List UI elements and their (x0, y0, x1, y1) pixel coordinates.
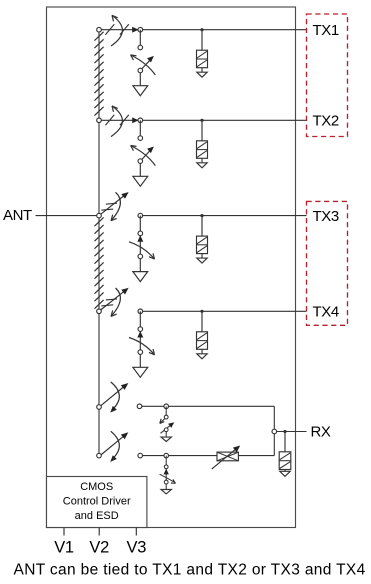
node bus terminal RX switch 2 (97, 453, 102, 458)
series switch SW_TX1 (closed) (99, 15, 140, 46)
shunt switch to ground TX3 (closed) (129, 235, 155, 259)
pin stub V2 (98, 528, 100, 536)
node shunt switch top terminal TX1 (138, 45, 143, 50)
wire TX3 row line to port (140, 215, 306, 217)
ground symbol mini (lower RX) (161, 490, 171, 494)
shunt switch mini (closed) lower RX branch (160, 469, 176, 484)
svg-text:RX: RX (311, 424, 331, 441)
outer device boundary box (47, 7, 296, 528)
node RX lower branch junction (164, 453, 169, 458)
ground symbol below shunt switch TX1 (133, 86, 148, 96)
node shunt switch bottom terminal TX4 (138, 350, 143, 355)
wire stem to shunt switch TX3 (139, 216, 141, 232)
node mini shunt bottom terminal (lower RX) (164, 480, 168, 484)
wire TX1 row line to port (140, 29, 306, 31)
wire shunt switch to ground TX1 (139, 73, 141, 86)
ground symbol below resistor TX2 (197, 163, 207, 168)
node TX1 series switch output (138, 27, 143, 32)
wire RX upper branch down to RX node (273, 406, 275, 431)
node resistor junction on TX1 line (200, 28, 203, 31)
wire bus TX1-TX2 (hatched transmission line) (98, 30, 100, 121)
svg-text:TX4: TX4 (313, 304, 339, 321)
wire bus TX2-ANT node (98, 120, 100, 215)
wire TX1 line to termination resistor (201, 30, 203, 51)
switch RX path 2 (open, on bus) (101, 431, 129, 462)
node RX resistor junction (283, 430, 286, 433)
shunt switch to ground TX4 (closed) (129, 331, 155, 355)
node mini shunt top terminal (upper RX) (164, 415, 168, 419)
wire TX3 line to termination resistor (201, 216, 203, 237)
wire stem to shunt switch TX2 (139, 120, 141, 136)
node mini shunt bottom terminal (upper RX) (164, 428, 168, 432)
series switch SW_TX2 (closed) (99, 106, 140, 137)
wire resistor to ground TX4 (201, 349, 203, 354)
svg-text:V1: V1 (54, 539, 74, 557)
wire TX2 row line to port (140, 119, 306, 121)
svg-text:V3: V3 (127, 539, 147, 557)
wire resistor to ground TX1 (201, 68, 203, 73)
node RX output junction (272, 429, 277, 434)
wire bus TX4 to RX switches (98, 311, 100, 455)
shunt switch to ground TX2 (open) (131, 146, 156, 166)
svg-text:ANT: ANT (3, 207, 32, 224)
resistor termination TX1 (197, 50, 208, 67)
wire TX4 row line to port (140, 310, 306, 312)
node resistor junction on TX3 line (200, 214, 203, 217)
wire attenuator to RX node (238, 455, 274, 457)
wire resistor to ground TX2 (201, 158, 203, 163)
node bus junction at TX3 branch (97, 213, 102, 218)
wire RX line to resistor (284, 432, 286, 452)
red dashed group box TX3/TX4 (307, 201, 348, 325)
svg-text:CMOS: CMOS (80, 481, 113, 493)
ground symbol below resistor TX4 (197, 354, 207, 359)
wire RX lower branch up to RX node (273, 432, 275, 456)
ground symbol mini (upper RX) (161, 437, 171, 441)
ground symbol below RX resistor (280, 471, 290, 476)
wire shunt switch to ground TX4 (139, 354, 141, 367)
wire stem to shunt switch TX1 (139, 30, 141, 46)
node bus terminal RX switch 1 (97, 405, 102, 410)
node shunt switch bottom terminal TX3 (138, 254, 143, 259)
node shunt switch top terminal TX4 (138, 327, 143, 332)
variable attenuator on RX lower branch (212, 446, 241, 470)
pin stub V3 (135, 528, 137, 536)
node shunt switch bottom terminal TX2 (138, 159, 143, 164)
resistor termination RX (279, 452, 291, 470)
CMOS control driver block (47, 477, 147, 528)
red dashed group box TX1/TX2 (307, 14, 348, 137)
svg-text:V2: V2 (89, 539, 109, 557)
shunt switch to ground TX1 (open) (131, 55, 156, 75)
node TX3 series switch output (138, 213, 143, 218)
wire stem to shunt switch TX4 (139, 311, 141, 327)
node TX2 series switch output (138, 118, 143, 123)
wire mini shunt to ground (upper RX) (165, 432, 167, 437)
ground symbol below shunt switch TX4 (133, 367, 148, 377)
node bus junction at TX4 branch (97, 309, 102, 314)
wire mini shunt to ground (lower RX) (165, 484, 167, 490)
wire RX upper branch (140, 405, 275, 407)
node RX upper branch left terminal (137, 404, 142, 409)
wire ANT to bus (36, 215, 100, 217)
node resistor junction on TX2 line (200, 119, 203, 122)
pin stub V1 (63, 528, 65, 536)
wire resistor to ground TX3 (201, 254, 203, 259)
wire RX resistor to ground (284, 470, 286, 472)
ground symbol below resistor TX3 (197, 258, 207, 263)
node mini shunt top terminal (lower RX) (164, 465, 168, 469)
svg-text:and ESD: and ESD (75, 510, 119, 522)
node RX upper branch junction (164, 404, 169, 409)
wire junction to mini shunt switch (upper RX) (165, 406, 167, 415)
node resistor junction on TX4 line (200, 310, 203, 313)
wire junction to mini shunt switch (lower RX) (165, 456, 167, 465)
resistor termination TX2 (197, 141, 208, 159)
node shunt switch top terminal TX3 (138, 231, 143, 236)
series switch SW_TX4 (open) (101, 288, 129, 317)
wire TX2 line to termination resistor (201, 120, 203, 141)
svg-text:Control Driver: Control Driver (63, 496, 131, 508)
ground symbol below shunt switch TX2 (133, 176, 148, 186)
wire shunt switch to ground TX3 (139, 259, 141, 272)
wire shunt switch to ground TX2 (139, 163, 141, 176)
ground symbol below resistor TX1 (197, 72, 207, 77)
node bus junction at TX2 branch (97, 118, 102, 123)
wire RX node to port (277, 431, 307, 433)
switch RX path 1 (open, on bus) (101, 382, 129, 413)
shunt switch mini (open) upper RX branch (160, 417, 174, 433)
wire RX lower branch to attenuator (140, 455, 217, 457)
node shunt switch bottom terminal TX1 (138, 68, 143, 73)
node bus junction at TX1 branch (97, 27, 102, 32)
resistor termination TX3 (197, 236, 208, 254)
hatch marks on bus TX1-TX2 (95, 32, 104, 116)
svg-text:TX2: TX2 (313, 113, 339, 130)
svg-text:TX3: TX3 (313, 208, 339, 225)
wire TX4 line to termination resistor (201, 311, 203, 332)
hatch marks on bus ANT-TX4 (95, 217, 104, 308)
svg-text:ANT can be tied to TX1 and TX2: ANT can be tied to TX1 and TX2 or TX3 an… (14, 562, 366, 579)
wire bus ANT-TX4 (hatched transmission line) (98, 216, 100, 312)
svg-text:TX1: TX1 (313, 22, 339, 39)
node shunt switch top terminal TX2 (138, 136, 143, 141)
resistor termination TX4 (197, 332, 208, 350)
ground symbol below shunt switch TX3 (133, 272, 148, 282)
node TX4 series switch output (138, 309, 143, 314)
node RX lower branch left terminal (138, 453, 143, 458)
series switch SW_TX3 (open) (101, 192, 129, 221)
